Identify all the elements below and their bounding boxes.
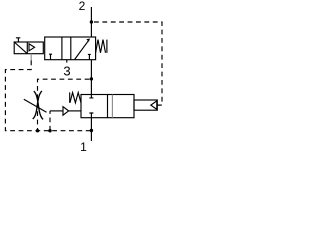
pilot triangle V2 (151, 101, 157, 110)
valve V2 blocked port bottom (89, 113, 93, 118)
pilot stub V2 (157, 104, 160, 106)
solenoid divider (26, 42, 28, 54)
node junction dot pilot B (90, 77, 93, 80)
wire pilot dashed through throttle (38, 79, 90, 131)
solenoid electric pin (16, 38, 20, 42)
valve V1 left box blocked port (49, 54, 52, 60)
wire pipe below valve V2 (90, 118, 92, 141)
node junction dot on port2 line (90, 20, 93, 23)
wire check valve feed (50, 110, 63, 112)
valve V2 body (81, 95, 134, 118)
svg-text:2: 2 (79, 0, 86, 13)
pilot plunger V2 (134, 100, 157, 110)
pilot triangle in actuator (29, 44, 35, 51)
valve V2 divider (107, 95, 109, 118)
valve V1 left box passage line (61, 37, 63, 60)
wire port 2 vertical (90, 7, 92, 37)
check valve triangle (63, 107, 69, 116)
node junction dot on lower pipe (90, 129, 93, 132)
valve V1 right box blocked port (88, 54, 91, 59)
spring V1 right (96, 40, 106, 53)
node junction dot check branch bottom (48, 129, 51, 132)
svg-text:3: 3 (63, 64, 70, 79)
wire pilot dashed to bottom valve plunger (top right) (94, 22, 162, 105)
solenoid actuator box (14, 42, 43, 54)
throttle valve arcs (34, 91, 43, 119)
throttle adjust arrow (24, 99, 47, 112)
wire port 1 vertical (valve V1 to valve V2) (90, 60, 92, 95)
wire check valve branch dashed (49, 111, 51, 131)
port 3 stub (66, 60, 68, 63)
valve V2 blocked port top (89, 95, 93, 98)
solenoid coil diagonal (14, 42, 27, 54)
wire pilot dashed to solenoid pilot (30, 54, 32, 61)
svg-text:1: 1 (80, 140, 87, 154)
valve V1 right box flow arrow (75, 40, 89, 59)
valve V1 body (45, 37, 96, 60)
wire check valve to valve V2 (69, 110, 81, 112)
spring V2 left (70, 93, 81, 103)
node junction dot throttle bottom (36, 129, 39, 132)
valve V1 divider (70, 37, 72, 60)
valve V2 passage line (grey) (111, 95, 113, 118)
